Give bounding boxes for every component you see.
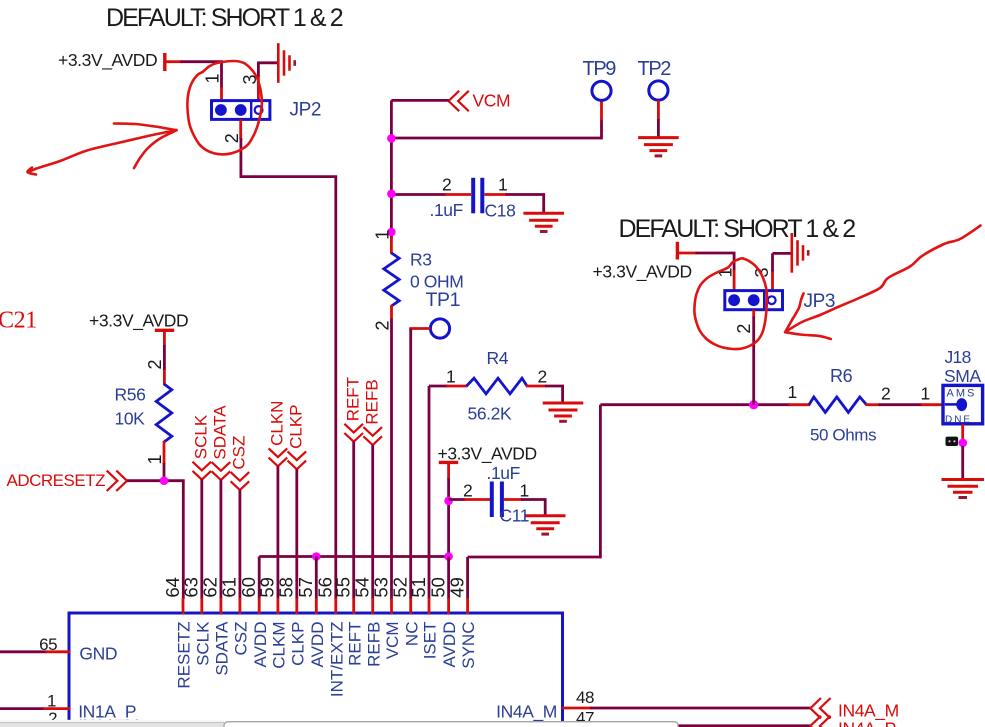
pin 55 stub bbox=[352, 598, 355, 614]
pin 1 stub bbox=[43, 707, 70, 710]
wire R4 left red bbox=[447, 385, 468, 388]
pin 47 wire dark bbox=[590, 724, 810, 727]
wire JP2 pin3 (vert dark) bbox=[257, 62, 260, 77]
svg-text:59: 59 bbox=[257, 577, 278, 598]
signal IN4A_M chevron bbox=[810, 698, 830, 718]
signal CLKN chevron bbox=[269, 448, 288, 466]
svg-text:2: 2 bbox=[222, 133, 242, 143]
power +3.3V_AVDD label (JP3) bbox=[593, 262, 692, 283]
wire SCLK to IC bbox=[200, 479, 203, 599]
pin 57 stub bbox=[315, 598, 318, 614]
svg-text:DEFAULT: SHORT 1 & 2: DEFAULT: SHORT 1 & 2 bbox=[619, 215, 856, 243]
ground GND (J18) bbox=[942, 480, 985, 498]
pin name CSZ (61) bbox=[232, 622, 251, 656]
wire R56 top dark bbox=[163, 345, 166, 371]
wire SYNC bus horiz bbox=[468, 556, 601, 559]
node VCM-C18 junction bbox=[387, 190, 396, 199]
label JP3 bbox=[804, 291, 836, 312]
svg-text:AVDD: AVDD bbox=[308, 622, 327, 668]
power +3.3V_AVDD label (C11) bbox=[438, 444, 537, 465]
pin number 2 (JP3) bbox=[734, 324, 754, 334]
testpoint TP2 circle bbox=[649, 81, 668, 100]
svg-text:RESETZ: RESETZ bbox=[175, 622, 194, 689]
pin name SYNC (49) bbox=[459, 622, 478, 669]
pin name IN1A_P (1) bbox=[78, 702, 136, 723]
svg-text:REFT: REFT bbox=[345, 622, 364, 666]
resistor R56 zigzag bbox=[156, 384, 172, 442]
wire JP3 pin2 vert bbox=[752, 317, 755, 405]
signal CLKN label bbox=[268, 401, 287, 446]
signal CSZ chevron bbox=[231, 472, 250, 490]
wire C11 to ground bbox=[544, 500, 547, 517]
wire TP1 to pin52 bbox=[409, 329, 412, 600]
svg-text:SDATA: SDATA bbox=[211, 405, 230, 460]
pin 53 stub bbox=[390, 598, 393, 614]
wire R6 right dark bbox=[879, 403, 923, 406]
svg-text:AMS: AMS bbox=[947, 388, 977, 400]
wire TP9 stem dark bbox=[600, 119, 603, 139]
resistor R4 zigzag bbox=[467, 378, 528, 394]
jumper JP3 pin1 pad bbox=[728, 294, 740, 306]
svg-text:REFB: REFB bbox=[362, 379, 381, 424]
svg-text:NC: NC bbox=[402, 622, 421, 647]
pin 56 stub bbox=[334, 598, 337, 614]
freehand arrow to JP2 bbox=[27, 124, 176, 175]
resistor R3 zigzag bbox=[384, 253, 399, 306]
svg-text:63: 63 bbox=[181, 577, 202, 598]
node ADCRESETZ junction bbox=[160, 476, 169, 485]
wire R3 to pin53 bbox=[390, 319, 393, 600]
label C21 bbox=[0, 308, 37, 334]
pin number 1 (R3) bbox=[373, 230, 393, 240]
power bar +3.3V_AVDD (R56) bbox=[155, 329, 174, 332]
svg-text:62: 62 bbox=[200, 577, 221, 598]
testpoint TP1 circle bbox=[430, 319, 449, 338]
wire R6 left red bbox=[789, 403, 811, 406]
jumper JP3 pin3 pad (open) bbox=[768, 296, 776, 304]
svg-text:CLKP: CLKP bbox=[288, 622, 307, 666]
pin number 56 bbox=[315, 577, 336, 598]
svg-text:REFB: REFB bbox=[364, 622, 383, 667]
wire JP2 pin1 (vert dark) bbox=[220, 62, 223, 88]
signal ADCRESETZ chevron bbox=[107, 471, 127, 491]
svg-text:SDATA: SDATA bbox=[213, 621, 232, 676]
node J18 shield junction bbox=[959, 439, 968, 448]
signal CLKP label bbox=[287, 404, 306, 448]
svg-text:AVDD: AVDD bbox=[251, 622, 270, 668]
svg-text:D N E: D N E bbox=[945, 414, 970, 425]
svg-text:1: 1 bbox=[788, 382, 797, 402]
jumper JP2 pin2 pad bbox=[235, 104, 247, 116]
wire CSZ to IC bbox=[238, 490, 241, 599]
pin 47 stub bbox=[562, 724, 592, 727]
signal IN4A_M label bbox=[838, 701, 899, 722]
label TP9 bbox=[583, 58, 617, 80]
pin number 1 (R4) bbox=[446, 367, 455, 387]
pin number 1 (R56) bbox=[145, 454, 165, 464]
svg-text:REFT: REFT bbox=[343, 377, 362, 421]
wire JP2 pin2 (red stub) bbox=[239, 119, 242, 139]
wire VCM horiz bbox=[391, 99, 448, 102]
wire R4 left dark bbox=[429, 385, 448, 388]
connector J18 DNE text bbox=[945, 414, 970, 425]
power bar +3.3V_AVDD (JP2) bbox=[163, 53, 166, 71]
signal REFT chevron bbox=[344, 424, 363, 442]
freehand circle around JP2 bbox=[187, 61, 262, 154]
svg-text:R4: R4 bbox=[487, 348, 509, 368]
wire TP1 stub red bbox=[409, 327, 430, 330]
svg-text:J18: J18 bbox=[945, 347, 971, 367]
node AVDD bus pin57 junction bbox=[312, 552, 321, 561]
svg-text:AVDD: AVDD bbox=[440, 622, 459, 668]
connector J18 pin stub bbox=[945, 403, 957, 406]
wire REFB to IC bbox=[371, 445, 374, 599]
svg-text:C18: C18 bbox=[485, 201, 516, 221]
svg-text:.1uF: .1uF bbox=[487, 463, 520, 483]
power bar +3.3V_AVDD (JP3) bbox=[676, 242, 679, 260]
node AVDD bus pin50 junction bbox=[444, 552, 453, 561]
wire JP3 pin1 red bbox=[733, 270, 736, 292]
wire JP3 pin2 red bbox=[752, 310, 755, 318]
pin number 50 bbox=[427, 577, 448, 598]
pin 54 stub bbox=[371, 598, 374, 614]
ground GND (JP3, right-facing) bbox=[792, 233, 808, 273]
svg-text:51: 51 bbox=[408, 577, 429, 598]
capacitor C11 plate right bbox=[500, 482, 504, 518]
svg-text:2: 2 bbox=[463, 481, 472, 501]
wire JP2 pin2 down to pin56 bbox=[334, 177, 337, 599]
svg-text:48: 48 bbox=[576, 688, 594, 707]
label SMA bbox=[944, 366, 981, 386]
freehand circle around JP3 bbox=[694, 258, 767, 349]
connector J18 body bbox=[943, 385, 983, 423]
wire C11 left red bbox=[464, 498, 490, 501]
pin number 3 (JP2) bbox=[240, 74, 260, 84]
wire AVDD bus to pin57 bbox=[315, 557, 318, 600]
signal REFB label bbox=[362, 379, 381, 424]
wire R3 bottom red bbox=[390, 305, 393, 320]
pin number 48 bbox=[576, 688, 594, 707]
wire SYNC vert bbox=[599, 405, 602, 559]
wire REFT to IC bbox=[352, 442, 355, 600]
wire C18 left dark bbox=[391, 193, 446, 196]
ground GND (R4) bbox=[543, 403, 584, 421]
pin name AVDD (50) bbox=[440, 622, 459, 668]
pin number 63 bbox=[181, 577, 202, 598]
label C18 bbox=[485, 201, 516, 221]
pin 49 stub bbox=[466, 598, 469, 614]
wire JP3 pin3 dark bbox=[771, 253, 774, 271]
pin name CLKM (59) bbox=[270, 622, 289, 669]
pin 48 wire dark bbox=[590, 707, 810, 710]
pin name CLKP (58) bbox=[288, 622, 307, 666]
signal SCLK label bbox=[192, 414, 211, 459]
svg-text:+3.3V_AVDD: +3.3V_AVDD bbox=[58, 50, 157, 71]
ground GND (C18) bbox=[523, 213, 564, 231]
wire R4 to ground bbox=[561, 386, 564, 404]
wire R56 bottom red bbox=[163, 441, 166, 464]
svg-text:JP2: JP2 bbox=[290, 100, 322, 121]
pin name INT/EXTZ (56) bbox=[327, 622, 346, 698]
signal SDATA label bbox=[211, 405, 230, 460]
wire JP2 pin1 (vert red) bbox=[220, 87, 223, 102]
power +3.3V_AVDD label (R56) bbox=[89, 311, 188, 332]
wire R56 top red1 bbox=[163, 330, 166, 346]
svg-text:2: 2 bbox=[145, 359, 165, 369]
label R4 bbox=[487, 348, 509, 368]
pin name ISET (51) bbox=[421, 622, 440, 660]
svg-text:R6: R6 bbox=[830, 366, 853, 386]
svg-text:JP3: JP3 bbox=[804, 291, 836, 312]
pin number 61 bbox=[219, 577, 240, 598]
wire SDATA to IC bbox=[219, 480, 222, 599]
pin 1 wire dark bbox=[0, 707, 45, 710]
wire C18 right dark bbox=[506, 193, 546, 196]
node SYNC junction (JP3/R6) bbox=[749, 400, 758, 409]
wire TP2 stem dark bbox=[657, 119, 660, 139]
signal CSZ label bbox=[230, 436, 249, 470]
pin number 51 bbox=[408, 577, 429, 598]
value 50 Ohms (R6) bbox=[810, 426, 876, 445]
signal SDATA chevron bbox=[212, 462, 231, 480]
wire AVDD bus to pin60 bbox=[258, 557, 261, 600]
pin number 57 bbox=[295, 577, 316, 598]
wire AVDD to pin50 bbox=[447, 557, 450, 600]
svg-text:ISET: ISET bbox=[421, 622, 440, 660]
wire R4 pin1 to pin51 bbox=[428, 386, 431, 599]
pin 52 stub bbox=[409, 598, 412, 614]
ground GND (C11) bbox=[525, 516, 566, 534]
capacitor C18 plate left bbox=[471, 178, 475, 214]
wire JP2 pin2 (horiz) bbox=[241, 175, 337, 178]
pin name IN4A_P (47) bbox=[499, 717, 557, 727]
wire C18 left red bbox=[445, 193, 471, 196]
wire JP2 pin2 (vert) bbox=[239, 138, 242, 178]
wire C11 right red bbox=[504, 498, 523, 501]
connector J18 center pin bbox=[956, 398, 967, 411]
wire SYNC to pin49 bbox=[466, 557, 469, 599]
svg-text:1: 1 bbox=[921, 384, 930, 404]
pin name SCLK (63) bbox=[193, 621, 212, 666]
wire C11 left dark bbox=[449, 498, 466, 501]
node R3 pin1 junction bbox=[387, 228, 396, 237]
svg-text:53: 53 bbox=[370, 577, 391, 598]
svg-text:58: 58 bbox=[276, 577, 297, 598]
svg-text:CSZ: CSZ bbox=[230, 436, 249, 470]
pin name REFB (54) bbox=[364, 622, 383, 667]
svg-text:55: 55 bbox=[333, 577, 354, 598]
wire JP3 pin3 red bbox=[771, 270, 774, 291]
pin name GND (65) bbox=[79, 644, 117, 664]
capacitor C18 plate right bbox=[480, 178, 484, 214]
jumper JP2 body bbox=[212, 101, 270, 120]
wire R56 bottom dark bbox=[163, 463, 166, 481]
pin number 64 bbox=[162, 577, 183, 598]
svg-text:1: 1 bbox=[446, 367, 455, 387]
svg-text:TP2: TP2 bbox=[638, 58, 672, 80]
pin 59 stub bbox=[276, 598, 279, 614]
pin name IN1A_M (2) bbox=[78, 716, 139, 727]
wire SYNC horiz to R6 bbox=[600, 403, 790, 406]
svg-text:56.2K: 56.2K bbox=[468, 404, 512, 424]
pin 2 stub bbox=[43, 725, 70, 727]
wire ADCRESETZ bbox=[127, 479, 185, 482]
freehand arrow to JP3 bbox=[785, 226, 980, 340]
svg-text:CLKP: CLKP bbox=[287, 404, 306, 448]
svg-text:2: 2 bbox=[373, 320, 393, 330]
pin number 2 (C18) bbox=[442, 175, 451, 195]
pin number 1 (IC) bbox=[47, 691, 56, 710]
pin number 2 (C11) bbox=[463, 481, 472, 501]
wire JP2 pin3 to ground bbox=[258, 61, 278, 64]
wire R3 top red bbox=[390, 237, 393, 254]
pin number 1 (J18) bbox=[921, 384, 930, 404]
pin 62 stub bbox=[219, 598, 222, 614]
label C11 bbox=[500, 506, 530, 526]
wire to J18 red bbox=[921, 403, 944, 406]
svg-text:1: 1 bbox=[373, 230, 393, 240]
power +3.3V_AVDD label (JP2) bbox=[58, 50, 157, 71]
pin 61 stub bbox=[238, 598, 241, 614]
signal VCM chevron bbox=[449, 91, 469, 111]
label J18 bbox=[945, 347, 971, 367]
svg-text:IN4A_P: IN4A_P bbox=[838, 718, 896, 727]
pin number 1 (C11) bbox=[520, 481, 529, 501]
svg-text:TP9: TP9 bbox=[583, 58, 617, 80]
svg-text:CSZ: CSZ bbox=[232, 622, 251, 656]
IC U? body bbox=[69, 613, 563, 727]
svg-text:2: 2 bbox=[538, 367, 547, 387]
svg-text:SCLK: SCLK bbox=[193, 621, 212, 666]
resistor R6 zigzag bbox=[809, 397, 867, 412]
jumper JP2 pin1 pad bbox=[215, 104, 227, 116]
pin number 1 (R6 left) bbox=[788, 382, 797, 402]
svg-text:1: 1 bbox=[498, 175, 507, 195]
label TP1 bbox=[426, 289, 461, 311]
pin number 60 bbox=[238, 577, 259, 598]
signal SCLK chevron bbox=[193, 462, 212, 480]
svg-text:R3: R3 bbox=[410, 250, 432, 270]
pin 48 stub bbox=[562, 707, 592, 710]
pin name AVDD (60) bbox=[251, 622, 270, 668]
ground GND (JP2, right-facing) bbox=[278, 43, 294, 83]
pin name VCM (53) bbox=[383, 622, 402, 660]
svg-text:SMA: SMA bbox=[944, 366, 981, 386]
svg-text:57: 57 bbox=[295, 577, 316, 598]
pin 63 stub bbox=[200, 598, 203, 614]
net label DEFAULT: SHORT 1 & 2 (JP3) bbox=[619, 215, 856, 243]
svg-text:1: 1 bbox=[47, 691, 56, 710]
label JP2 bbox=[290, 100, 322, 121]
scrollbar strip bbox=[0, 720, 224, 727]
pin name SDATA (62) bbox=[213, 621, 232, 676]
svg-text:2: 2 bbox=[881, 384, 890, 404]
jumper JP2 divider bbox=[250, 101, 252, 120]
testpoint TP9 circle bbox=[592, 81, 611, 100]
pin name NC (52) bbox=[402, 622, 421, 647]
pin 50 stub bbox=[447, 598, 450, 614]
svg-text:65: 65 bbox=[39, 635, 57, 654]
pin number 1 (C18) bbox=[498, 175, 507, 195]
signal REFT label bbox=[343, 377, 362, 421]
pin 65 wire dark bbox=[0, 650, 47, 653]
pin name AVDD (57) bbox=[308, 622, 327, 668]
value .1uF (C11) bbox=[487, 463, 520, 483]
pin number 2 (IC) bbox=[48, 709, 57, 727]
svg-text:50 Ohms: 50 Ohms bbox=[810, 426, 876, 445]
pin number 54 bbox=[352, 577, 373, 598]
svg-text:C11: C11 bbox=[500, 506, 530, 526]
svg-text:VCM: VCM bbox=[383, 622, 402, 660]
svg-text:GND: GND bbox=[79, 644, 117, 664]
svg-text:49: 49 bbox=[446, 577, 467, 598]
pin number 1 (JP2) bbox=[203, 73, 223, 83]
node C11 junction bbox=[444, 497, 453, 506]
pin number 2 (R4) bbox=[538, 367, 547, 387]
pin number 49 bbox=[446, 577, 467, 598]
wire CLKP to IC bbox=[295, 469, 298, 599]
wire TP9 stem red bbox=[600, 100, 603, 120]
svg-text:2: 2 bbox=[734, 324, 754, 334]
wire TP9 horiz bbox=[391, 137, 601, 140]
signal CLKP chevron bbox=[288, 451, 307, 469]
pin name REFT (55) bbox=[345, 622, 364, 666]
label TP2 bbox=[638, 58, 672, 80]
wire R4 right red bbox=[526, 385, 547, 388]
svg-text:CLKM: CLKM bbox=[270, 622, 289, 669]
signal IN4A_P chevron bbox=[810, 716, 830, 727]
svg-text:CLKN: CLKN bbox=[268, 401, 287, 446]
pin name IN4A_M (48) bbox=[496, 702, 557, 723]
wire JP3 pin3 to ground bbox=[773, 252, 792, 255]
value 56.2K (R4) bbox=[468, 404, 512, 424]
svg-text:SCLK: SCLK bbox=[192, 414, 211, 459]
ground GND (TP2) bbox=[638, 138, 679, 156]
signal ADCRESETZ label bbox=[7, 471, 106, 490]
pin number 3 (JP3) bbox=[752, 267, 772, 277]
value 0 OHM (R3) bbox=[410, 272, 463, 292]
svg-text:VCM: VCM bbox=[473, 91, 511, 111]
wire +3.3V to JP2 pin1 (red stub) bbox=[167, 60, 183, 63]
svg-text:1: 1 bbox=[203, 73, 223, 83]
wire R6 right red bbox=[866, 403, 880, 406]
wire +3.3V to JP3 red bbox=[679, 252, 697, 255]
svg-text:SYNC: SYNC bbox=[459, 622, 478, 669]
svg-text:+3.3V_AVDD: +3.3V_AVDD bbox=[593, 262, 692, 283]
power bar +3.3V_AVDD (C11) bbox=[439, 461, 458, 464]
pin number 58 bbox=[276, 577, 297, 598]
jumper JP3 pin2 pad bbox=[748, 294, 760, 306]
label R3 bbox=[410, 250, 432, 270]
label R56 bbox=[115, 385, 146, 405]
pin number 53 bbox=[370, 577, 391, 598]
pin number 2 (JP2) bbox=[222, 133, 242, 143]
net label DEFAULT: SHORT 1 & 2 (JP2) bbox=[106, 4, 343, 32]
pin number 2 (R56) bbox=[145, 359, 165, 369]
wire C11 right dark bbox=[521, 498, 547, 501]
wire C11 supply red bbox=[447, 462, 450, 479]
pin number 47 bbox=[576, 709, 594, 727]
svg-text:1: 1 bbox=[145, 454, 165, 464]
pin number 55 bbox=[333, 577, 354, 598]
wire C18 right red bbox=[484, 193, 506, 196]
wire J18 shield dark bbox=[961, 446, 964, 479]
pin number 2 (R6) bbox=[881, 384, 890, 404]
pin number 59 bbox=[257, 577, 278, 598]
capacitor C11 plate left bbox=[490, 482, 494, 518]
pin 51 stub bbox=[428, 598, 431, 614]
pin number 52 bbox=[390, 577, 411, 598]
